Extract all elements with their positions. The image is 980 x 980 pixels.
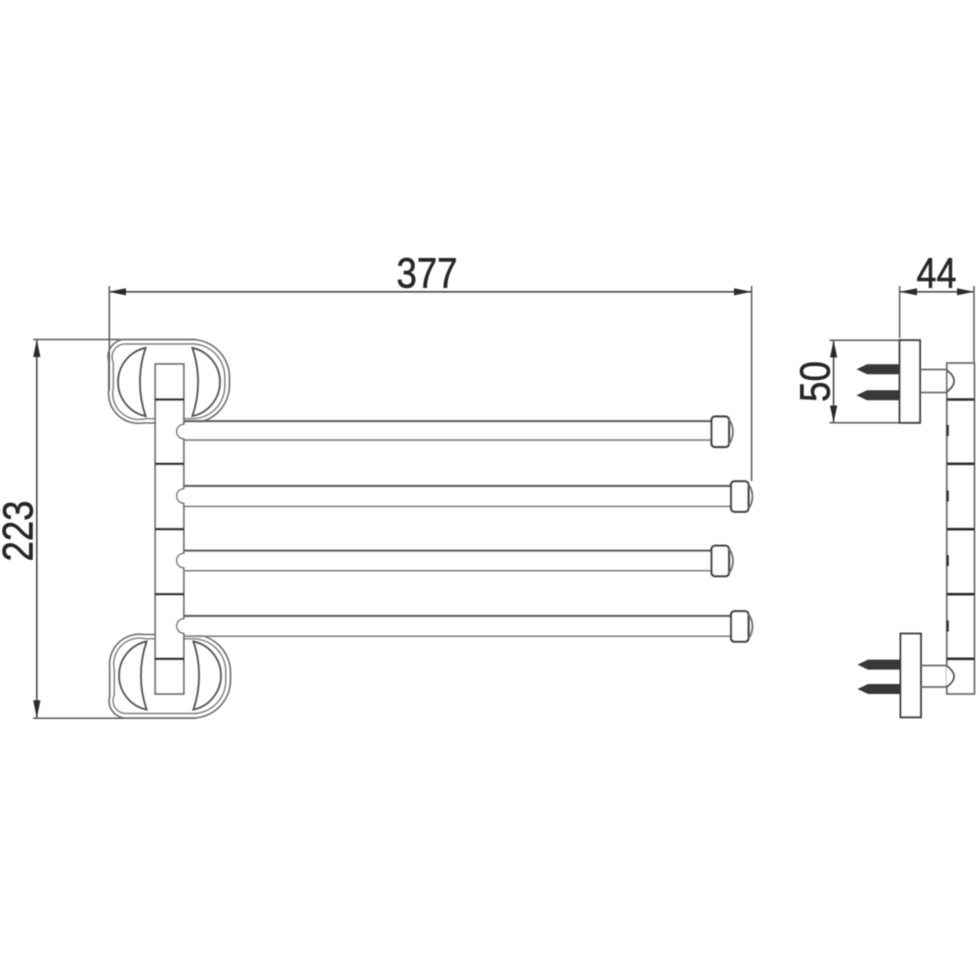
svg-text:377: 377: [397, 250, 458, 298]
arm 3 bottom line: [184, 570, 712, 572]
dimension 223 top extension line: [33, 339, 196, 341]
side view rod joint line 3: [947, 528, 975, 531]
arm 3 end cap dome: [729, 549, 733, 574]
side view bottom wall plate: [901, 634, 921, 718]
flange inner outline: [112, 344, 225, 420]
arm 3 top line: [184, 550, 712, 552]
side view bottom screw 2: [858, 684, 901, 694]
pivot post joint line 5: [155, 657, 184, 660]
dimension 223 bottom arrow: [33, 700, 40, 718]
dimension 50 top extension line: [830, 339, 900, 341]
flange outer outline: [108, 339, 229, 423]
arm 2 top line: [184, 485, 731, 487]
dimension 50 bottom arrow: [830, 406, 837, 423]
arm 2 end cap dome: [749, 484, 753, 509]
side view rod joint line 2: [947, 462, 975, 465]
flange left crescent: [118, 348, 145, 416]
side view rod hinge tick 3: [946, 555, 948, 566]
arm 4 hinge knuckle: [182, 620, 185, 633]
dimension 223 top arrow: [33, 340, 40, 358]
side view top screw 2: [857, 390, 900, 400]
pivot post joint line 3: [155, 528, 184, 531]
svg-text:50: 50: [792, 361, 840, 402]
svg-text:223: 223: [0, 501, 43, 562]
side view rod joint line 4: [947, 593, 975, 596]
arm 2 end cap: [731, 481, 749, 512]
pivot post joint line 1: [155, 398, 184, 401]
side view top wall plate: [900, 340, 920, 423]
arm 1 end cap dome: [729, 420, 733, 445]
dimension 377 right arrow: [734, 288, 752, 295]
arm 1 end cap: [712, 417, 730, 448]
side view rod joint line 1: [947, 398, 975, 401]
dimension 44 line: [900, 291, 974, 293]
dimension 50 top arrow: [830, 340, 837, 357]
dimension 44 left extension line: [899, 286, 901, 338]
dimension 44 right extension line: [973, 286, 975, 362]
dimension 377 left extension line: [108, 286, 110, 391]
top wall flange (front view): [108, 339, 229, 423]
dimension 223 line: [36, 340, 38, 719]
arm 2 hinge knuckle: [182, 490, 185, 503]
dimension 50 line: [833, 340, 835, 423]
dimension 377 line: [109, 291, 752, 293]
arm 1 top line: [184, 420, 712, 422]
dimension 377 left arrow: [109, 288, 127, 295]
dimension 223 bottom extension line: [33, 717, 196, 719]
dimension 44 left arrow: [900, 288, 917, 295]
arm 1 bottom line: [184, 439, 712, 441]
side view top screw 1: [857, 364, 900, 374]
pivot post joint line 4: [155, 593, 184, 596]
side view bottom stem bottom line: [921, 686, 947, 688]
vertical pivot post body (front view): [155, 364, 184, 694]
pivot post joint line 2: [155, 462, 184, 465]
side view top stem top line: [920, 369, 947, 371]
side view rod hinge tick 1: [946, 425, 948, 436]
side view rod hinge tick 2: [946, 491, 948, 502]
flange right crescent: [193, 348, 220, 416]
dimension 50 bottom extension line: [830, 422, 900, 424]
arm 4 end cap: [731, 611, 749, 642]
arm 1 hinge knuckle: [182, 425, 185, 438]
dimension 44 right arrow: [957, 288, 974, 295]
arm 2 bottom line: [184, 505, 731, 507]
dimension 377 right extension line: [751, 286, 753, 481]
side view top stem rounded tip: [947, 370, 955, 392]
arm 3 hinge knuckle: [182, 554, 185, 567]
arm 4 end cap dome: [749, 614, 753, 639]
side view rod joint line 5: [947, 657, 975, 660]
side view bottom stem top line: [921, 665, 947, 667]
side view bottom stem rounded tip: [947, 666, 955, 687]
arm 4 top line: [184, 615, 731, 617]
svg-text:44: 44: [917, 250, 957, 298]
bottom wall flange (front view): [109, 634, 230, 718]
side view rod hinge tick 4: [946, 621, 948, 632]
side view bottom screw 1: [858, 660, 901, 670]
arm 3 end cap: [712, 546, 730, 577]
side view rod body: [947, 363, 975, 694]
side view top stem bottom line: [920, 392, 947, 394]
arm 4 bottom line: [184, 635, 731, 637]
